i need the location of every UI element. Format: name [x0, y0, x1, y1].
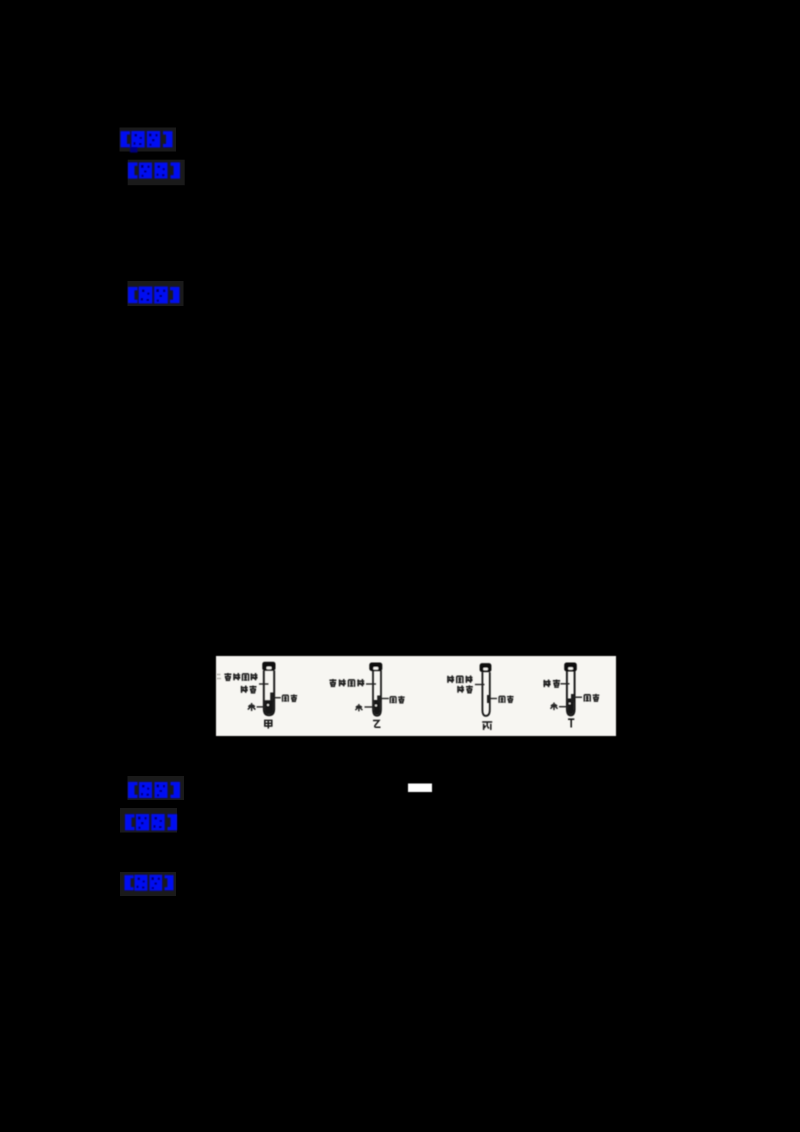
- tube yi body: [373, 671, 381, 716]
- white dash (answer blank): [408, 784, 432, 793]
- tube jia label copper: [283, 694, 298, 701]
- blue label 2 fenxi: [128, 162, 180, 178]
- tube ding copper piece: [571, 694, 574, 702]
- blue label 4 kaodian: [128, 782, 180, 798]
- halo box label6: [120, 872, 176, 896]
- tube yi label copper: [390, 696, 404, 703]
- tube ding stopper: [564, 663, 577, 672]
- tube ding label O2: [543, 679, 560, 687]
- white image box with test tube figure: [216, 656, 616, 736]
- halo box label1: [120, 128, 177, 152]
- tube yi leader gas: [366, 683, 376, 685]
- tube yi copper piece: [377, 696, 380, 703]
- halo box label3: [128, 281, 184, 306]
- tube jia label CO2 faint cut char at box edge: [217, 675, 222, 679]
- tube jia name jia: [265, 720, 272, 728]
- tube ding label water: [550, 702, 557, 710]
- tube jia label CO2: [224, 673, 257, 681]
- tube bing name bing: [482, 722, 492, 730]
- tube jia stopper: [262, 662, 275, 671]
- tube bing label O2 (line2): [457, 685, 473, 692]
- tube yi leader water: [365, 706, 375, 708]
- tube ding leader gas: [561, 683, 570, 685]
- tube bing stopper: [480, 663, 492, 672]
- tube ding label copper: [584, 694, 599, 702]
- halo box label2: [128, 160, 185, 186]
- tube jia label water: [248, 703, 256, 711]
- tube yi label CO2: [329, 679, 364, 687]
- halo box label4: [128, 776, 185, 800]
- blue label 3 jieda: [128, 287, 180, 304]
- tube yi leader copper: [380, 698, 389, 700]
- tube bing label CO (line1): [447, 675, 472, 683]
- tube jia liquid: [265, 700, 274, 714]
- tube bing body: [482, 672, 489, 716]
- tube bing leader gas: [475, 684, 485, 686]
- tube yi name yi: [373, 721, 381, 728]
- blue label 1 kaodian: [121, 131, 173, 153]
- tube bing leader copper: [490, 698, 498, 700]
- tube ding name ding: [568, 719, 574, 727]
- tube jia leader water: [257, 706, 266, 708]
- halo box label5: [120, 808, 177, 833]
- tube ding leader copper: [574, 696, 583, 698]
- tube jia leader gas: [259, 683, 268, 685]
- tube jia label O2: [241, 685, 257, 692]
- tube ding body: [567, 671, 575, 715]
- tube ding leader water: [559, 706, 568, 708]
- tube bing copper piece: [487, 695, 490, 703]
- tube jia leader copper: [273, 697, 281, 699]
- tube ding liquid: [568, 699, 574, 715]
- tube jia copper piece: [270, 693, 273, 702]
- tube bing label copper: [499, 696, 513, 703]
- tube jia body: [264, 671, 274, 716]
- blue label 6 jieda: [125, 875, 174, 891]
- tube yi liquid: [374, 700, 380, 715]
- tube yi stopper: [369, 663, 382, 672]
- tube yi label water: [355, 704, 362, 711]
- blue label 5 fenxi: [125, 814, 177, 831]
